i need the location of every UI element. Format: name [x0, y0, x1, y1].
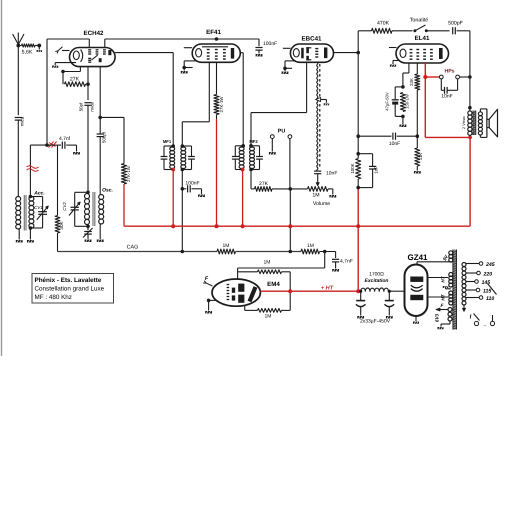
- capacitor 4,7nf: [47, 136, 77, 152]
- volume track wavy wire: [317, 62, 318, 171]
- ground EM4: [205, 311, 212, 314]
- svg-text:Constellation grand Luxe: Constellation grand Luxe: [35, 286, 105, 293]
- resistor 27K-1W EF41 screen: [214, 95, 224, 120]
- svg-text:Acc.: Acc.: [33, 191, 45, 197]
- node coupling bus right: [416, 134, 420, 138]
- resistor 23K: [409, 74, 420, 136]
- ground oscillator secondary: [97, 224, 104, 242]
- wiper tap of volume track: [316, 98, 329, 106]
- ground of 11K: [414, 171, 421, 174]
- svg-text:5,6K: 5,6K: [22, 50, 33, 56]
- node CAG right: [323, 250, 327, 254]
- MF1 primary tank: [161, 146, 175, 170]
- tap 115: [466, 288, 491, 294]
- ground EL41 cathode: [400, 116, 407, 127]
- output transformer primary: [462, 106, 472, 135]
- resistor 1M CAG 2: [301, 243, 320, 254]
- svg-text:EM4: EM4: [267, 281, 280, 288]
- ground of volume pot: [329, 195, 336, 198]
- svg-text:CAG: CAG: [127, 245, 139, 251]
- oscillator coil secondary Osc.: [99, 188, 113, 224]
- node anode HPs: [423, 75, 427, 79]
- ground 6V3 bottom: [437, 321, 450, 329]
- svg-text:1700Ω: 1700Ω: [369, 272, 384, 278]
- node HT MF1: [171, 224, 175, 228]
- wire EF41 screen down: [216, 62, 218, 94]
- wire top bus to 100nF: [217, 38, 260, 40]
- wire EF41 anode to MF2: [240, 53, 243, 146]
- node 100K bottom: [356, 186, 360, 190]
- svg-text:mica: mica: [90, 102, 95, 112]
- wire EBC41 cathode to ground: [285, 61, 296, 68]
- node HT detector junction: [356, 224, 360, 228]
- heater arrow F of ECH42: [55, 47, 69, 54]
- tap 110: [466, 296, 494, 302]
- wire ECH42 cathode to ground: [52, 63, 76, 68]
- variable capacitor CV1: [30, 197, 48, 229]
- red annotation mark 1: [49, 142, 57, 148]
- wire MF2 secondary to 27K: [250, 170, 252, 189]
- title box: [32, 274, 114, 304]
- svg-text:1M: 1M: [223, 243, 230, 249]
- tap 220: [466, 271, 492, 277]
- wire EF41 grid stub: [184, 47, 192, 49]
- wire MF1 secondary down: [181, 170, 183, 189]
- choke 1700ohm Excitation: [361, 272, 389, 292]
- wire EBC41 anode right: [334, 52, 359, 54]
- terminal HPs left: [439, 75, 443, 79]
- node grid junction: [45, 143, 49, 147]
- wire EL41 grid stub: [389, 47, 397, 49]
- svg-text:4,7nF: 4,7nF: [340, 259, 353, 265]
- node MF2 primary top: [241, 144, 245, 148]
- svg-text:Excitation: Excitation: [365, 278, 389, 284]
- wire EF41 grid to MF1 secondary: [182, 62, 209, 146]
- MF2 secondary tank: [250, 146, 263, 170]
- wire excitation to GZ41: [389, 290, 405, 292]
- wire EBC41 grid stub: [283, 47, 291, 49]
- tap 245: [466, 262, 495, 268]
- svg-text:30K: 30K: [59, 220, 64, 229]
- trimmer capacitor padder: [83, 226, 93, 242]
- output transformer secondary: [478, 109, 487, 137]
- resistor 5,6K: [18, 44, 39, 56]
- wire EL41 screen down: [416, 63, 418, 74]
- node MF2 secondary bottom: [249, 168, 253, 172]
- svg-text:220: 220: [483, 271, 493, 277]
- wire ECH42 anode to MF1: [115, 53, 173, 146]
- svg-text:CV1: CV1: [34, 205, 43, 210]
- page border line: [1, 0, 3, 356]
- primary bottom arrow: [462, 305, 465, 312]
- red wire 27K-1W to HT bus: [123, 184, 125, 226]
- tube EF41: [192, 29, 240, 62]
- variable capacitor CV2 branch: [62, 192, 88, 226]
- ground antenna primary: [16, 229, 23, 243]
- node MF2 primary bottom red: [241, 168, 245, 172]
- red wire MF1 primary to HT bus: [172, 170, 174, 227]
- capacitor 100nF AVC: [182, 181, 201, 195]
- node CAG MF1: [181, 250, 185, 254]
- svg-text:4,7nf: 4,7nf: [59, 136, 71, 142]
- svg-text:245: 245: [485, 262, 495, 268]
- red annotation mark 2: [27, 166, 39, 172]
- wire CAG bus: [58, 245, 218, 252]
- ground of 4,7nF CAG: [332, 269, 339, 272]
- capacitor 10nF HPs: [441, 79, 457, 100]
- oscillator coil primary: [85, 194, 90, 199]
- svg-text:115: 115: [483, 288, 491, 294]
- heater arrow F of 6V3: [436, 303, 448, 311]
- node 100K top: [356, 152, 360, 156]
- svg-text:Volume: Volume: [313, 201, 330, 207]
- ground near MF2: [269, 139, 276, 155]
- resistor 1M CAG 1: [217, 243, 236, 254]
- svg-text:11K: 11K: [418, 153, 423, 161]
- wire anode feed to screen resistor: [100, 117, 124, 163]
- node osc tank top: [86, 191, 90, 195]
- ground of 100nF AVC: [198, 195, 205, 198]
- wire HPs right to transformer: [460, 76, 470, 78]
- tube EM4: [212, 279, 280, 306]
- node MF1 secondary top: [181, 144, 185, 148]
- resistor 470K: [372, 21, 413, 34]
- resistor 27K oscillator: [65, 77, 89, 87]
- svg-text:10nF: 10nF: [326, 171, 337, 177]
- red wire excitation feed: [358, 290, 361, 292]
- svg-text:Tonalité: Tonalité: [410, 18, 429, 24]
- node HT volume crossing: [288, 224, 292, 228]
- red wire main HT bus: [124, 225, 470, 227]
- node osc tank bottom: [86, 225, 90, 229]
- svg-text:MF : 480 Khz: MF : 480 Khz: [35, 294, 72, 301]
- wire PU right down: [289, 139, 291, 189]
- MF2 primary tank: [232, 146, 244, 170]
- svg-text:1M: 1M: [265, 314, 272, 320]
- svg-text:1nF: 1nF: [374, 166, 379, 174]
- svg-text:MF2: MF2: [249, 139, 258, 144]
- svg-text:PU: PU: [278, 129, 286, 135]
- capacitor 1nF: [358, 154, 378, 188]
- wire antenna cap to coil: [17, 120, 19, 196]
- node EF41 screen top: [215, 37, 219, 41]
- node EBC41 cathode: [283, 67, 287, 71]
- capacitor mica antenna: [15, 116, 25, 126]
- svg-text:HPs: HPs: [444, 69, 454, 75]
- svg-text:ECH42: ECH42: [84, 30, 105, 37]
- svg-text:EL41: EL41: [415, 35, 430, 42]
- node MF1 secondary bottom: [181, 168, 185, 172]
- dashed link of volume: [319, 64, 321, 169]
- svg-text:47µF-50V: 47µF-50V: [385, 92, 390, 111]
- resistor 27K-1W oscillator feed: [121, 164, 131, 185]
- node oscillator grid junction: [86, 82, 90, 86]
- wire MF1 secondary to CAG bus: [181, 189, 183, 252]
- svg-text:27K-1W: 27K-1W: [126, 165, 131, 182]
- tap 145: [466, 280, 490, 286]
- wire secondary to grid junction: [30, 145, 47, 196]
- svg-text:100K: 100K: [350, 163, 355, 173]
- red wire HT bus down to +HT line: [357, 188, 359, 291]
- voltage selector lever: [488, 284, 497, 295]
- capacitor 500pf oscillator: [97, 131, 107, 143]
- svg-text:EF41: EF41: [206, 29, 221, 36]
- resistor 100K: [350, 159, 361, 189]
- node HT EF41 screen: [215, 224, 219, 228]
- svg-text:1M: 1M: [264, 260, 271, 266]
- wire GZ41 anode taps: [428, 278, 449, 298]
- svg-text:500pF: 500pF: [448, 21, 463, 27]
- primary winding with taps: [462, 263, 466, 306]
- svg-text:10nF: 10nF: [441, 94, 452, 100]
- wire triode grid up to top bus: [47, 39, 89, 145]
- core of oscillator transformer: [93, 192, 95, 226]
- svg-text:100nF: 100nF: [185, 181, 199, 187]
- svg-text:27K: 27K: [259, 181, 269, 187]
- svg-text:110: 110: [486, 296, 494, 302]
- node MF1 primary bottom red: [171, 168, 175, 172]
- wire oscillator grid line: [87, 67, 89, 100]
- wire tone to output transformer: [469, 31, 471, 108]
- power transformer core: [453, 250, 457, 330]
- wire antenna down: [17, 46, 19, 116]
- node EBC41 anode: [356, 51, 360, 55]
- wire volume junction to CAG: [289, 189, 291, 252]
- capacitor 10nF coupling: [358, 133, 417, 147]
- capacitor 100nF decoupling: [255, 39, 277, 54]
- switch I mains: [470, 314, 495, 330]
- capacitor 500pF tone: [448, 21, 470, 35]
- winding 6V3: [434, 308, 452, 323]
- ground of 4,7nf: [73, 152, 80, 155]
- svg-text:1M: 1M: [307, 243, 314, 249]
- red wire EL41 anode: [424, 63, 426, 137]
- node HT MF2: [241, 224, 245, 228]
- node secondary bottom: [29, 226, 33, 230]
- red wire EF41 screen to HT bus: [216, 119, 218, 226]
- tube ECH42: [70, 30, 116, 67]
- svg-text:CV2: CV2: [62, 202, 67, 211]
- antenna: [13, 33, 24, 46]
- wire CAG to 4,7nF: [320, 252, 336, 259]
- red wire to HPs: [425, 76, 439, 78]
- svg-text:50pf: 50pf: [79, 102, 84, 111]
- svg-text:100nF: 100nF: [263, 41, 277, 47]
- node CAG volume: [289, 250, 293, 254]
- resistor 1M EM4 target: [245, 291, 291, 319]
- node cathode RC top: [401, 85, 405, 89]
- tube EL41: [396, 35, 449, 63]
- svg-text:Phénix - Ets. Lavalette: Phénix - Ets. Lavalette: [35, 277, 102, 284]
- node antenna junction: [16, 44, 20, 48]
- node transformer top feed: [468, 75, 472, 79]
- switch Tonalite: [410, 18, 450, 33]
- node resistor-ground junction: [37, 44, 41, 48]
- node cathode RC bottom: [401, 115, 405, 119]
- ground antenna secondary: [27, 228, 34, 243]
- svg-text:EBC41: EBC41: [302, 36, 323, 43]
- speaker: [487, 109, 498, 137]
- node volume junction: [289, 187, 293, 191]
- node MF1 primary top: [171, 144, 175, 148]
- terminal HPs right: [456, 75, 460, 79]
- core of output transformer: [473, 111, 476, 136]
- svg-text:27K: 27K: [70, 77, 80, 83]
- node EF41 cathode: [182, 66, 186, 70]
- capacitor 50pf mica: [79, 102, 95, 112]
- wire 50pf to oscillator coil: [87, 105, 89, 192]
- resistor 11K grid leak: [415, 136, 423, 170]
- red wire MF2 primary to HT bus: [242, 170, 244, 227]
- capacitor 33uF right: [385, 291, 395, 318]
- node 100nF junction: [181, 187, 185, 191]
- antenna coil secondary Acc.: [29, 191, 45, 229]
- svg-text:+ HT: + HT: [321, 286, 334, 292]
- ground HT center tap: [443, 286, 451, 289]
- resistor 150-1W: [400, 93, 409, 112]
- svg-text:Osc.: Osc.: [102, 188, 113, 194]
- wire ECH42 cathode junction: [63, 67, 80, 85]
- wire EM4 cathode to ground: [209, 300, 216, 310]
- wire CAG bus middle: [236, 251, 302, 253]
- wire ECH42 screen pins: [104, 39, 106, 48]
- node primary bottom red: [468, 136, 472, 140]
- wire GZ41 top to 5V winding: [417, 262, 452, 265]
- ground of 100nF: [256, 54, 263, 57]
- node +HT detector feed: [356, 289, 360, 293]
- winding HT upper: [440, 273, 453, 288]
- svg-text:500pf: 500pf: [102, 131, 107, 143]
- terminal PU right: [288, 135, 292, 139]
- wire GZ41 bottom ground: [413, 316, 419, 324]
- wire osc secondary to triode anode: [99, 67, 101, 134]
- svg-text:10nF: 10nF: [389, 141, 400, 147]
- capacitor 33uF left: [356, 291, 366, 318]
- svg-text:2x33µF-450V: 2x33µF-450V: [360, 319, 391, 325]
- node cathode junction: [61, 70, 65, 74]
- node MF2 secondary top: [249, 144, 253, 148]
- node triode anode feed: [98, 116, 102, 120]
- node filter cap left: [359, 290, 362, 293]
- terminal PU left: [270, 135, 274, 139]
- wire CAG to EM4 grid: [238, 252, 325, 280]
- red wire anode to primary bottom: [425, 136, 470, 138]
- svg-text:mica: mica: [20, 116, 25, 126]
- node coupling bus left: [356, 134, 360, 138]
- svg-text:27K-1W: 27K-1W: [219, 96, 224, 113]
- node +HT EM4: [288, 289, 292, 293]
- svg-text:23K: 23K: [409, 78, 414, 86]
- svg-text:MF1: MF1: [163, 139, 172, 144]
- tube EBC41: [290, 36, 333, 63]
- wire EL41 cathode: [403, 63, 409, 87]
- wire tone bus left: [358, 30, 371, 32]
- red wire +HT line: [260, 286, 360, 292]
- ground EF41 cathode: [181, 68, 188, 74]
- potentiometer 1M Volume: [308, 174, 333, 207]
- svg-text:150-1W: 150-1W: [405, 94, 410, 109]
- capacitor 4,7nF CAG: [332, 259, 353, 269]
- svg-text:470K: 470K: [377, 21, 390, 27]
- capacitor 10nF detector: [314, 171, 337, 177]
- MF1 secondary tank: [181, 146, 195, 170]
- wire EBC41 diode to MF2 secondary: [251, 62, 307, 146]
- resistor 27K detector: [251, 181, 308, 192]
- resistor 1M EM4 grid: [238, 260, 291, 292]
- node filter cap right: [388, 290, 391, 293]
- winding HT lower: [440, 291, 453, 305]
- tube GZ41: [405, 253, 429, 316]
- wire top bus to EF41: [105, 38, 217, 40]
- winding 5V: [442, 251, 453, 262]
- wire grid junction down / resistor 30K: [55, 145, 64, 251]
- svg-text:GZ41: GZ41: [407, 253, 428, 262]
- node secondary top: [29, 195, 33, 199]
- antenna coil primary: [16, 197, 21, 229]
- core of antenna transformer: [24, 195, 26, 231]
- wire EF41 cathode to ground: [184, 61, 196, 68]
- svg-text:1M: 1M: [312, 193, 319, 199]
- capacitor 47uF-50V: [385, 87, 403, 117]
- ground EL41 grid return: [390, 61, 399, 67]
- svg-text:~: ~: [484, 324, 487, 330]
- ground EBC41 cathode: [282, 68, 289, 74]
- svg-text:6V3: 6V3: [434, 313, 439, 322]
- wire EBC41 anode down: [357, 31, 359, 159]
- heater arrow F of EM4: [203, 276, 212, 286]
- red wire down right side: [469, 137, 471, 226]
- svg-text:2 Vmax: 2 Vmax: [462, 116, 466, 129]
- ground of 5,6K: [37, 46, 42, 53]
- node EM4 cathode: [207, 299, 211, 303]
